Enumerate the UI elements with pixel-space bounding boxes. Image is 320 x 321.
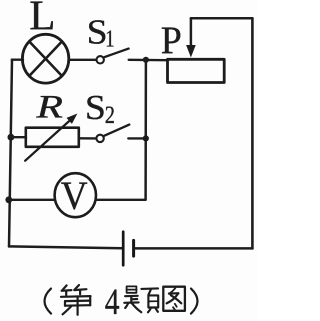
battery short plate	[132, 240, 135, 256]
wire R row left segment	[11, 136, 26, 138]
svg-text:S: S	[85, 88, 106, 126]
potentiometer P wiper arrowhead	[186, 45, 196, 58]
caption char tu2 (图)	[163, 287, 185, 311]
svg-text:4: 4	[105, 282, 120, 321]
caption char ti2 (题)	[124, 286, 158, 312]
battery long plate	[122, 232, 125, 266]
rheostat R arrow	[25, 120, 70, 160]
svg-text:P: P	[161, 20, 182, 63]
potentiometer P wiper lead	[190, 18, 193, 46]
junction node R row left	[7, 134, 14, 141]
potentiometer P body	[168, 59, 225, 82]
lamp L cross	[29, 41, 62, 76]
wire left vertical bus	[9, 60, 12, 247]
wire S1 to potentiometer P	[129, 59, 167, 62]
wire voltmeter to bus	[96, 199, 146, 201]
switch S1 lever	[104, 49, 128, 58]
caption char di4 (第)	[61, 285, 91, 315]
switch S2 pivot circle	[96, 135, 103, 142]
wire lamp row left segment	[12, 59, 23, 61]
rheostat R body	[26, 128, 79, 147]
svg-text:1: 1	[105, 25, 114, 52]
svg-text:V: V	[61, 175, 88, 218]
switch S2 lever	[104, 125, 129, 136]
wire voltmeter row left	[9, 199, 55, 201]
wire right middle bus vertical	[144, 60, 147, 200]
wire top right	[191, 17, 253, 20]
svg-text:2: 2	[105, 101, 115, 128]
svg-text:L: L	[29, 0, 55, 40]
junction node voltmeter row left	[5, 196, 12, 203]
junction node S2-bus	[143, 135, 149, 141]
svg-text:R: R	[35, 89, 63, 125]
lamp L circle	[22, 34, 68, 83]
wire S2 to bus	[128, 137, 146, 139]
wire lamp to switch S1	[69, 59, 96, 61]
wire bottom left	[9, 246, 122, 248]
wire right vertical	[251, 18, 254, 248]
junction node S1-bus	[143, 57, 149, 63]
switch S1 pivot circle	[97, 56, 104, 63]
caption close paren	[191, 289, 198, 314]
caption open paren	[45, 289, 52, 314]
voltmeter V circle	[55, 173, 96, 217]
wire R to switch S2	[79, 137, 96, 139]
wire bottom right	[135, 247, 253, 250]
